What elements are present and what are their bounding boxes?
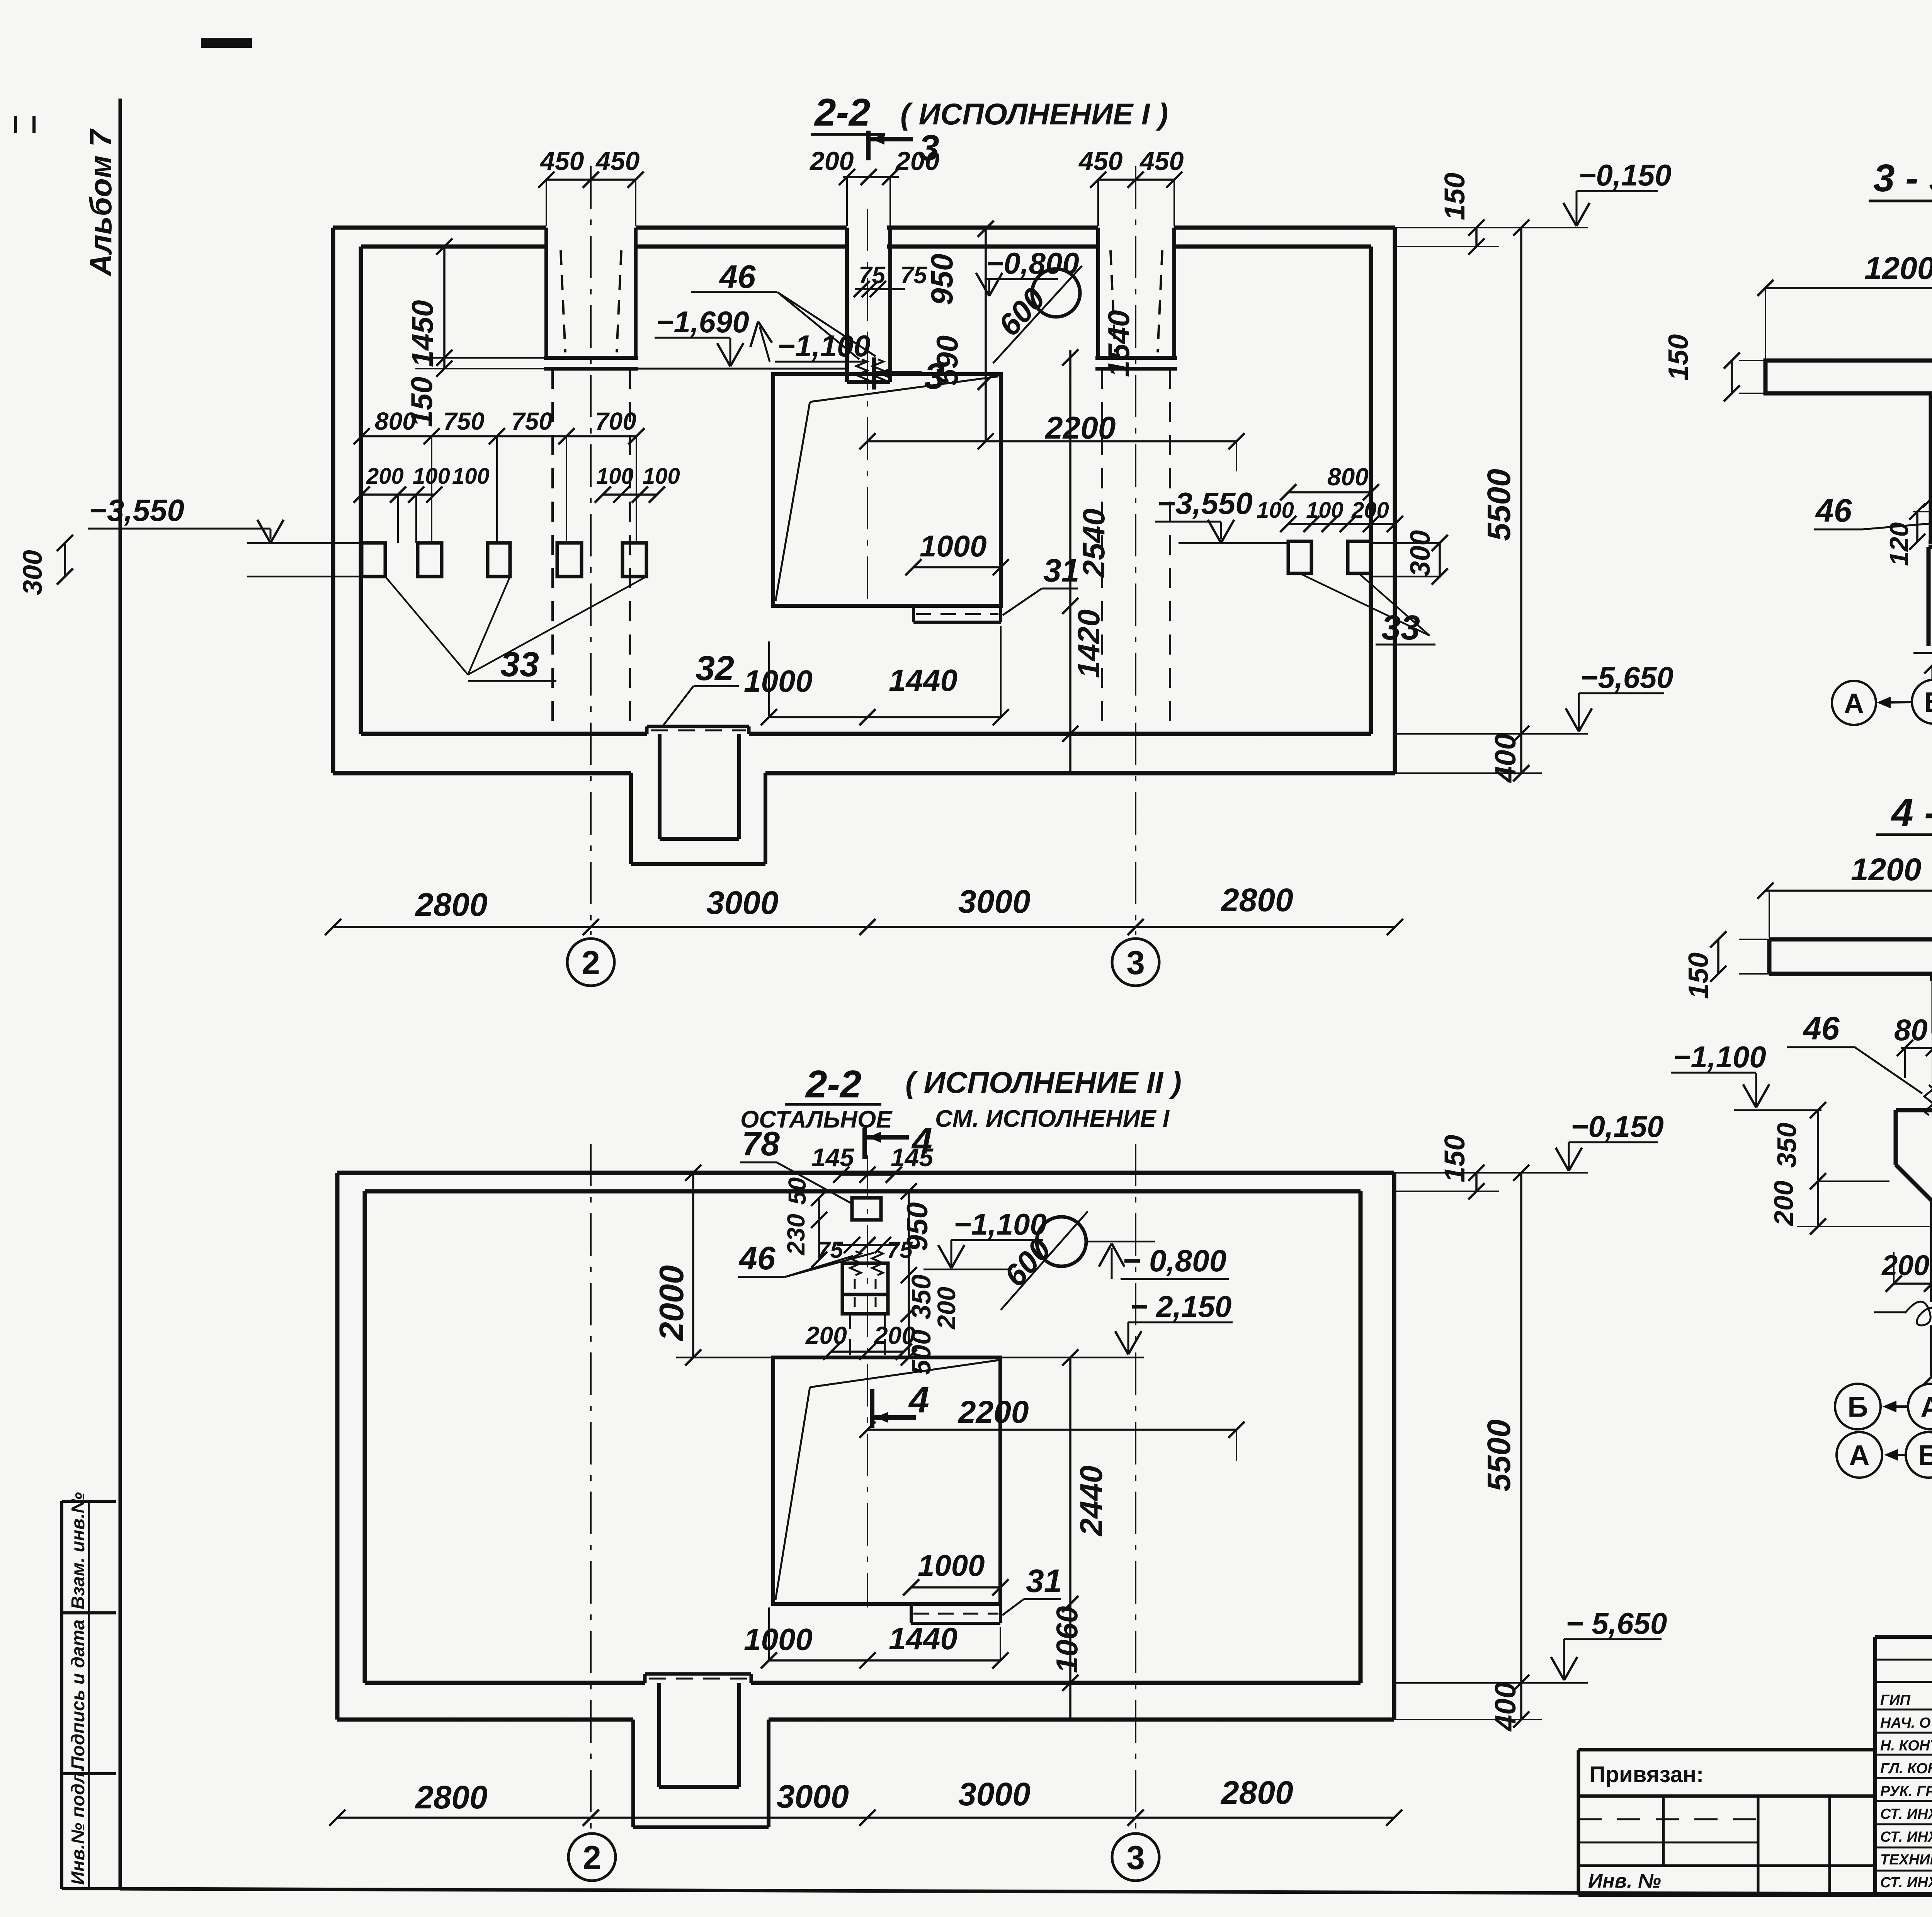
svg-text:2540: 2540: [1077, 509, 1111, 578]
svg-text:А: А: [1844, 688, 1864, 719]
svg-text:4: 4: [911, 1121, 932, 1162]
svg-text:450: 450: [539, 146, 584, 176]
svg-text:3000: 3000: [777, 1778, 849, 1815]
anchor bolts 46: [856, 359, 867, 382]
section cut mark 3 bottom: [872, 357, 876, 390]
svg-text:200: 200: [366, 464, 404, 489]
svg-text:Инв.№ подл.: Инв.№ подл.: [68, 1767, 88, 1885]
svg-text:−3,550: −3,550: [1157, 486, 1253, 520]
svg-text:800: 800: [375, 407, 416, 435]
svg-text:200: 200: [805, 1322, 847, 1349]
embedded plate 31: [912, 606, 915, 622]
svg-text:200: 200: [1881, 1249, 1929, 1281]
section cut mark 4 top: [862, 1128, 867, 1159]
svg-text:2800: 2800: [1220, 1774, 1293, 1811]
svg-text:3: 3: [1126, 1839, 1145, 1876]
registration mark top: [201, 38, 252, 48]
column axis 3 lower: [1135, 1144, 1136, 1830]
level line -1,690: [638, 368, 845, 370]
svg-text:3000: 3000: [706, 885, 779, 921]
svg-text:100: 100: [1257, 498, 1294, 523]
right track funnel: [1096, 228, 1100, 358]
pit outer box: [629, 773, 633, 864]
svg-text:150: 150: [1439, 173, 1471, 220]
svg-text:1000: 1000: [918, 1548, 985, 1582]
svg-text:590: 590: [930, 335, 964, 386]
svg-text:− 5,650: − 5,650: [1566, 1606, 1667, 1640]
column below: [1927, 547, 1931, 646]
svg-text:2800: 2800: [415, 1779, 488, 1815]
svg-text:700: 700: [595, 407, 636, 435]
svg-text:1440: 1440: [889, 1621, 957, 1656]
hidden lines below left funnel: [551, 369, 554, 731]
svg-text:Инв. №: Инв. №: [1588, 1870, 1661, 1892]
column axis 2 lower: [590, 1144, 592, 1830]
svg-text:СТ. ИНЖ.: СТ. ИНЖ.: [1880, 1829, 1932, 1845]
section cut mark 3 top: [866, 131, 871, 160]
svg-text:31: 31: [1026, 1563, 1062, 1599]
central pit shaft lower: [773, 1357, 1000, 1604]
left margin stamp boxes: [62, 1500, 116, 1503]
svg-text:1000: 1000: [744, 1622, 813, 1657]
svg-text:32: 32: [696, 649, 734, 688]
svg-text:Привязан:: Привязан:: [1589, 1762, 1704, 1787]
svg-text:450: 450: [595, 146, 640, 176]
svg-text:ТЕХНИК: ТЕХНИК: [1880, 1852, 1932, 1868]
svg-text:46: 46: [738, 1240, 776, 1276]
svg-text:200: 200: [1351, 498, 1389, 523]
svg-text:950: 950: [925, 254, 959, 305]
svg-text:450: 450: [1139, 146, 1184, 176]
svg-text:75: 75: [817, 1237, 844, 1263]
embedded plate 78: [1930, 974, 1932, 981]
svg-text:( ИСПОЛНЕНИЕ I ): ( ИСПОЛНЕНИЕ I ): [900, 97, 1168, 131]
rib below slab: [1929, 393, 1932, 542]
axis circle 2: [567, 939, 614, 986]
svg-text:3000: 3000: [958, 883, 1031, 920]
svg-text:НАЧ. ОТД.: НАЧ. ОТД.: [1880, 1715, 1932, 1731]
anchor bolts 46 lower dwg: [850, 1251, 861, 1275]
embedded plate 31 lower: [910, 1604, 913, 1623]
svg-text:4 - 4: 4 - 4: [1891, 791, 1932, 835]
svg-text:33: 33: [1381, 609, 1420, 647]
svg-text:( ИСПОЛНЕНИЕ II ): ( ИСПОЛНЕНИЕ II ): [905, 1065, 1182, 1099]
svg-text:3: 3: [1126, 944, 1145, 981]
svg-text:4: 4: [908, 1379, 929, 1420]
slab of section 3-3: [1765, 361, 1932, 393]
svg-text:2800: 2800: [415, 886, 488, 923]
svg-text:−1,100: −1,100: [1673, 1040, 1766, 1074]
level lines right wall: [1371, 542, 1441, 544]
svg-text:−0,150: −0,150: [1578, 158, 1672, 192]
pit lid 32: [647, 725, 749, 728]
svg-text:800: 800: [1327, 463, 1369, 491]
svg-text:46: 46: [1815, 492, 1852, 529]
svg-text:2800: 2800: [1220, 882, 1293, 918]
svg-text:Подпись и дата: Подпись и дата: [68, 1619, 88, 1770]
svg-text:1060: 1060: [1050, 1606, 1084, 1673]
svg-text:100: 100: [643, 464, 680, 489]
privyazan box: [1578, 1748, 1875, 1752]
hidden lines below right funnel: [1101, 369, 1103, 731]
svg-text:РУК. ГР.: РУК. ГР.: [1880, 1783, 1932, 1800]
column axis 3: [1135, 166, 1136, 935]
embedded piece 78: [852, 1198, 881, 1220]
inner wall outline: [361, 245, 546, 249]
pit inner box: [658, 734, 662, 839]
svg-text:100: 100: [452, 464, 490, 489]
svg-text:1200: 1200: [1851, 852, 1921, 887]
svg-text:Б: Б: [1924, 687, 1932, 718]
svg-text:950: 950: [901, 1202, 934, 1251]
svg-text:2-2: 2-2: [805, 1063, 862, 1106]
svg-text:46: 46: [719, 259, 756, 295]
svg-text:150: 150: [1439, 1135, 1471, 1182]
axis circle 3 lower: [1112, 1834, 1159, 1881]
svg-text:3: 3: [919, 128, 939, 168]
personnel table rows: [1875, 1659, 1932, 1661]
svg-text:−0,150: −0,150: [1571, 1109, 1664, 1143]
svg-text:1420: 1420: [1071, 609, 1106, 678]
svg-text:100: 100: [596, 464, 634, 489]
anchor plates 33 left: [362, 543, 385, 577]
axis circle 3: [1112, 939, 1159, 986]
svg-text:5500: 5500: [1481, 469, 1517, 541]
svg-text:−1,100: −1,100: [777, 329, 871, 363]
inner wall outline: [365, 1189, 1361, 1194]
sheet frame bottom border: [120, 1889, 1932, 1896]
hole d600: [1032, 269, 1080, 317]
svg-text:2-2: 2-2: [814, 91, 871, 134]
svg-text:1450: 1450: [405, 300, 439, 367]
middle axis: [867, 209, 868, 607]
svg-text:−1,100: −1,100: [954, 1207, 1047, 1241]
view marks B<-A A<-B: [1835, 1384, 1881, 1429]
leaders to label 33: [385, 577, 468, 675]
view mark A <- B: [1832, 681, 1876, 725]
svg-text:А: А: [1849, 1439, 1869, 1471]
slab of section 4-4: [1769, 937, 1932, 942]
svg-text:120: 120: [1884, 522, 1914, 566]
svg-text:2440: 2440: [1074, 1466, 1109, 1537]
break squiggle (4-4): [1905, 1301, 1932, 1325]
svg-text:500: 500: [906, 1330, 936, 1375]
middle axis lower: [867, 1155, 868, 1607]
svg-text:Альбом 7: Альбом 7: [83, 128, 118, 277]
anchor plates 33 right: [1288, 541, 1311, 573]
svg-text:Взам. инв.№: Взам. инв.№: [68, 1492, 88, 1609]
section cut mark 4 bottom: [870, 1389, 874, 1428]
svg-text:1200: 1200: [1864, 251, 1932, 286]
svg-text:− 0,800: − 0,800: [1122, 1243, 1226, 1278]
svg-text:75: 75: [900, 262, 927, 289]
svg-text:СТ. ИНЖ.: СТ. ИНЖ.: [1880, 1874, 1932, 1891]
svg-text:200: 200: [809, 146, 854, 176]
title block outer: [1875, 1635, 1932, 1639]
svg-text:−1,690: −1,690: [656, 305, 749, 339]
sheet frame left border: [119, 99, 122, 1889]
svg-text:50: 50: [783, 1177, 811, 1205]
svg-text:31: 31: [1043, 552, 1079, 589]
svg-text:78: 78: [742, 1124, 780, 1163]
svg-text:300: 300: [17, 550, 48, 595]
middle beam opening: [845, 228, 849, 382]
pit lid lower: [645, 1672, 751, 1676]
svg-text:200: 200: [932, 1287, 961, 1330]
svg-text:А: А: [1920, 1391, 1932, 1423]
svg-text:− 2,150: − 2,150: [1130, 1289, 1231, 1323]
svg-text:150: 150: [1663, 334, 1694, 381]
basement outer wall outline (section 2-2 I): [333, 226, 546, 230]
svg-text:33: 33: [500, 645, 539, 684]
column axis 2: [590, 166, 592, 935]
svg-text:Н. КОНТР.: Н. КОНТР.: [1880, 1738, 1932, 1754]
beam pocket shaft: [842, 1263, 888, 1314]
svg-text:200: 200: [1769, 1180, 1799, 1226]
svg-text:−5,650: −5,650: [1580, 660, 1673, 694]
svg-text:750: 750: [443, 407, 485, 435]
svg-text:1000: 1000: [744, 664, 813, 698]
svg-text:750: 750: [511, 407, 553, 435]
pit outer box lower: [631, 1720, 635, 1827]
svg-text:150: 150: [1683, 953, 1714, 999]
svg-text:3 - 3: 3 - 3: [1873, 156, 1932, 200]
svg-text:100: 100: [413, 464, 450, 489]
svg-text:1440: 1440: [889, 663, 957, 697]
svg-text:2200: 2200: [957, 1395, 1029, 1430]
svg-text:100: 100: [1306, 498, 1344, 523]
svg-text:−3,550: −3,550: [89, 493, 184, 527]
svg-text:1540: 1540: [1102, 310, 1136, 377]
svg-text:2: 2: [582, 944, 600, 981]
svg-text:СМ. ИСПОЛНЕНИЕ I: СМ. ИСПОЛНЕНИЕ I: [935, 1106, 1170, 1132]
axis circle 2 lower: [568, 1834, 616, 1881]
svg-text:5500: 5500: [1481, 1419, 1517, 1492]
svg-text:3000: 3000: [958, 1776, 1031, 1812]
basement outer wall outline (section 2-2 II): [337, 1171, 1394, 1175]
central pit shaft (formwork panel): [773, 374, 1001, 606]
svg-text:46: 46: [1803, 1010, 1840, 1046]
svg-text:230: 230: [782, 1214, 810, 1255]
svg-text:450: 450: [1078, 146, 1123, 176]
svg-text:2000: 2000: [652, 1265, 690, 1342]
svg-text:350: 350: [1772, 1123, 1802, 1168]
left track funnel: [544, 228, 548, 358]
svg-text:ГЛ. КОНСТР.: ГЛ. КОНСТР.: [1880, 1761, 1932, 1777]
pit inner box lower: [657, 1683, 661, 1787]
svg-text:2: 2: [583, 1839, 601, 1876]
svg-text:Б: Б: [1918, 1439, 1932, 1471]
svg-text:Б: Б: [1847, 1391, 1868, 1423]
svg-text:300: 300: [1405, 530, 1436, 577]
svg-text:СТ. ИНЖ: СТ. ИНЖ: [1880, 1806, 1932, 1822]
svg-text:1000: 1000: [920, 529, 987, 563]
svg-text:ГИП: ГИП: [1880, 1692, 1911, 1708]
hole d600 lower: [1037, 1217, 1086, 1266]
